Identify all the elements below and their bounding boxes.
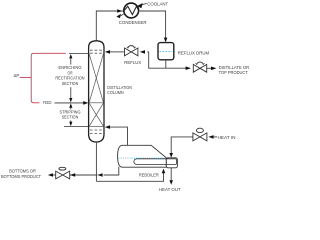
wire heat out xyxy=(170,168,172,181)
svg-text:ΔP: ΔP xyxy=(14,73,20,78)
svg-text:BOTTOMS PRODUCT: BOTTOMS PRODUCT xyxy=(1,174,41,179)
column bottom packing line xyxy=(89,125,103,127)
arrow boilup into column xyxy=(105,125,110,129)
column packing X enriching xyxy=(89,54,103,103)
wire column bottoms downcomer xyxy=(95,142,97,181)
column bottom tray dashes xyxy=(90,130,103,133)
wire boilup vapor xyxy=(110,127,128,145)
wire overhead vapor xyxy=(96,11,123,41)
label ENRICHING OR RECTIFICATION SECTION xyxy=(55,65,84,86)
arrow bottoms product xyxy=(48,173,53,177)
arrow up into reboiler xyxy=(162,169,166,174)
arrow into reflux valve xyxy=(140,50,145,54)
reflux drum V1 xyxy=(158,43,174,60)
wire heat in xyxy=(171,137,193,154)
reboiler nozzle xyxy=(166,158,177,168)
arrow bottoms at junction xyxy=(97,173,102,177)
column C1 shell xyxy=(89,41,104,142)
svg-text:REFLUX DRUM: REFLUX DRUM xyxy=(178,51,210,56)
wire reboiler feed line xyxy=(96,173,163,181)
coolant outlet arrow xyxy=(121,13,125,16)
enriching top boundary line xyxy=(69,53,89,55)
dP red bracket xyxy=(20,53,66,103)
enriching section arrow (down) xyxy=(70,87,72,98)
arrow reflux into column xyxy=(105,50,110,54)
reflux drum liquid level (blue dashes) xyxy=(159,51,172,53)
enriching section arrow (up) xyxy=(69,54,72,58)
svg-text:TOP PRODUCT: TOP PRODUCT xyxy=(219,70,249,75)
arrow heat out xyxy=(169,180,173,185)
svg-text:REFLUX: REFLUX xyxy=(124,60,141,65)
svg-text:CONDENSER: CONDENSER xyxy=(119,20,147,25)
svg-text:SECTION: SECTION xyxy=(62,81,79,86)
column top tray dashes xyxy=(90,50,103,53)
label BOTTOMS OR BOTTOMS PRODUCT xyxy=(1,168,41,178)
wire bottoms to valve xyxy=(70,174,98,176)
wire reflux to column xyxy=(110,51,125,53)
stripping section arrow (up) xyxy=(69,103,72,107)
valve heat in xyxy=(193,128,207,141)
wire feed line xyxy=(55,102,85,104)
arrow into reflux drum xyxy=(164,38,168,43)
arrow distillate out xyxy=(211,67,216,71)
valve reflux xyxy=(125,46,138,56)
column feed tray line xyxy=(89,102,103,104)
svg-text:COLUMN: COLUMN xyxy=(107,90,123,95)
reboiler E2 shell xyxy=(118,145,167,167)
svg-text:BOTTOMS OR: BOTTOMS OR xyxy=(9,168,36,173)
condenser coil zigzag xyxy=(124,6,138,14)
valve bottoms xyxy=(56,167,70,179)
wire condenser to reflux drum xyxy=(139,11,166,39)
svg-text:COOLANT: COOLANT xyxy=(147,1,168,6)
svg-text:FEED: FEED xyxy=(43,100,51,105)
arrow into distillate valve xyxy=(186,66,191,70)
arrow vapor into condenser xyxy=(117,9,122,13)
stripping section arrow (down) xyxy=(70,120,72,122)
wire distillate line xyxy=(166,67,190,69)
svg-text:HEAT IN: HEAT IN xyxy=(218,135,236,140)
wire reflux line xyxy=(147,52,166,68)
arrow heat in down into reboiler xyxy=(169,153,173,158)
wire bottoms out xyxy=(52,174,56,176)
reboiler liquid level (blue dotted) xyxy=(118,157,166,159)
valve distillate xyxy=(193,62,206,72)
svg-text:REBOILER: REBOILER xyxy=(139,172,159,177)
svg-text:SECTION: SECTION xyxy=(62,115,79,120)
label STRIPPING SECTION xyxy=(60,109,82,119)
wire drum outlet xyxy=(165,60,167,68)
wire distillate out xyxy=(207,67,211,69)
wire heat in from label xyxy=(214,136,217,138)
coolant inlet arrow xyxy=(137,3,142,8)
stripping bottom boundary line xyxy=(64,125,89,127)
condenser E1 circle xyxy=(124,3,139,18)
column packing X stripping xyxy=(89,103,103,126)
wire bottoms from reboiler xyxy=(104,167,119,175)
coolant inlet leader xyxy=(142,3,147,5)
arrow into bottoms valve xyxy=(70,173,75,177)
arrow into heat in valve xyxy=(208,135,213,139)
reboiler tube bundle xyxy=(134,159,177,165)
arrow feed into column xyxy=(83,101,88,105)
svg-text:HEAT OUT: HEAT OUT xyxy=(159,187,181,192)
